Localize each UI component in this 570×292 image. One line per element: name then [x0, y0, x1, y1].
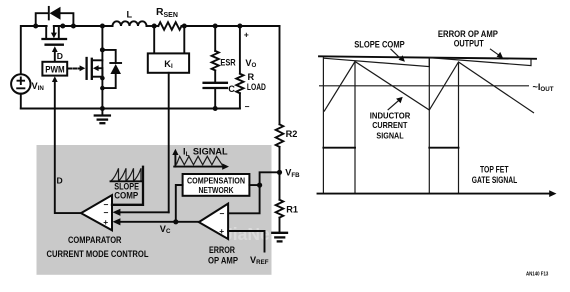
node dot rail source — [60, 24, 65, 29]
svg-text:D: D — [57, 176, 63, 186]
cycle marker t3 — [458, 62, 460, 148]
transistor Q2 bottom FET (N-channel) — [87, 58, 103, 79]
wire rail L to RSEN — [147, 25, 159, 27]
wire R2 to VFB — [279, 147, 281, 200]
node dot ground junction — [100, 106, 105, 111]
node dot VO branch top — [237, 24, 242, 29]
inductor current waveform — [324, 62, 534, 114]
resistor ESR — [212, 51, 219, 71]
arrow error op amp label — [490, 49, 503, 59]
current mode control shaded block — [37, 145, 272, 275]
diode D1 (across top FET) — [36, 7, 74, 26]
wire VC line error amp to comparator plus input — [113, 218, 199, 225]
svg-text:SLOPE COMP: SLOPE COMP — [354, 39, 405, 49]
wire comparator output D column to PWM — [52, 76, 81, 213]
cycle marker t1 — [354, 62, 356, 148]
inductor L — [113, 21, 147, 26]
node dot RSEN left — [152, 24, 157, 29]
source VIN — [11, 74, 30, 93]
IL signal annotation — [172, 149, 229, 170]
svg-text:−: − — [104, 207, 109, 217]
svg-text:C: C — [228, 84, 235, 94]
svg-text:R2: R2 — [286, 129, 298, 139]
wire sense line right — [183, 26, 185, 53]
wire C bottom — [214, 88, 216, 109]
error op amp output heavy line — [319, 56, 536, 59]
svg-text:−: − — [220, 208, 225, 218]
wire compensation right junction — [249, 172, 277, 185]
wire KI signal into comparator (middle input) — [113, 209, 169, 216]
node VFB — [277, 170, 282, 175]
node dot ESR top — [213, 24, 218, 29]
svg-text:CURRENT: CURRENT — [372, 120, 407, 130]
wire compensation left to VC — [176, 185, 183, 220]
wire bottom rail — [21, 108, 240, 110]
slope comp ramp cycle 1 — [323, 58, 429, 67]
svg-text:L: L — [127, 10, 133, 20]
svg-text:ERROR: ERROR — [209, 245, 235, 255]
svg-text:AN140 F13: AN140 F13 — [526, 271, 548, 277]
svg-text:TOP FET: TOP FET — [480, 164, 509, 174]
arrow slope comp label — [391, 49, 405, 62]
wire slope comp to comparator top input — [112, 167, 143, 205]
capacitor C — [204, 83, 227, 88]
node dot rail-diode right — [71, 24, 76, 29]
svg-text:COMPARATOR: COMPARATOR — [68, 235, 122, 245]
svg-text:+: + — [244, 29, 249, 39]
wire feedback column to R2 — [279, 26, 281, 124]
node dot RSEN right — [182, 24, 187, 29]
node VC — [173, 219, 178, 224]
wire switch node column — [101, 26, 103, 109]
wire ESR to C — [214, 70, 216, 82]
comparator U2 — [81, 195, 112, 230]
wire rail RSEN to corner — [182, 25, 280, 27]
svg-text:−: − — [245, 102, 250, 112]
wire gate drive D arrow (PWM to top FET gate) — [52, 46, 58, 61]
resistor RSEN — [158, 22, 181, 30]
node dot switch node top — [100, 24, 105, 29]
svg-text:SIGNAL: SIGNAL — [376, 130, 403, 140]
wire ESR branch top — [214, 26, 216, 51]
resistor R2 — [276, 124, 284, 147]
slope comp sawtooth icon — [111, 168, 142, 181]
svg-text:OUTPUT: OUTPUT — [454, 39, 484, 49]
svg-text:+: + — [103, 217, 108, 227]
resistor R1 — [276, 200, 284, 218]
svg-text:PWM: PWM — [45, 65, 64, 75]
svg-text:JiaNe: JiaNe — [223, 224, 270, 244]
gate pulse 1 top — [323, 147, 355, 149]
wire R LOAD bottom — [239, 93, 241, 108]
gate pulse 2 top — [429, 147, 458, 149]
op-amp U3 error amp — [199, 204, 228, 239]
node dot drain Q2 — [100, 47, 105, 52]
svg-text:NETWORK: NETWORK — [199, 185, 235, 195]
wire error amp plus to VREF — [228, 231, 264, 252]
node dot diode bottom — [100, 86, 105, 91]
svg-text:LOAD: LOAD — [247, 82, 266, 92]
gate signal baseline — [318, 190, 557, 197]
svg-text:D: D — [57, 51, 63, 61]
node dot compensation junction — [257, 183, 262, 188]
wire KI output column — [168, 73, 170, 213]
arrow inductor current label — [388, 97, 403, 110]
compensation network block — [183, 174, 250, 196]
svg-text:R: R — [248, 72, 255, 82]
diode D2 body diode of Q2 — [102, 50, 121, 88]
node dot C bottom — [213, 106, 218, 111]
wire VO branch — [239, 26, 241, 74]
wire VIN bottom — [20, 94, 22, 109]
svg-text:GATE SIGNAL: GATE SIGNAL — [472, 175, 518, 185]
resistor R LOAD — [236, 74, 243, 94]
slope comp ramp cycle 2 — [429, 58, 531, 66]
ground (feedback divider) — [272, 233, 287, 242]
svg-text:CURRENT MODE CONTROL: CURRENT MODE CONTROL — [47, 249, 149, 259]
current sense gain block KI — [148, 53, 189, 72]
wire top rail left (VIN to top FET drain) — [21, 26, 47, 74]
cycle marker t2 — [428, 58, 430, 148]
svg-text:INDUCTOR: INDUCTOR — [370, 111, 411, 121]
wire top rail right of top FET (source side to feedback corner) — [54, 25, 113, 27]
wire junction down to error amp minus — [228, 185, 260, 213]
svg-text:OP AMP: OP AMP — [208, 256, 238, 266]
wire R1 to ground — [279, 218, 281, 233]
svg-text:IL SIGNAL: IL SIGNAL — [183, 147, 228, 158]
transistor Q1 top FET (P-channel, horizontal) — [43, 26, 67, 45]
svg-text:COMP: COMP — [114, 191, 138, 201]
pwm block U1 — [42, 62, 67, 76]
IOUT level line — [319, 85, 529, 87]
node dot rail-diode left — [33, 24, 38, 29]
cycle marker t0 — [322, 57, 324, 148]
svg-text:R1: R1 — [286, 205, 298, 215]
wire dashed PWM to Q2 gate — [68, 65, 85, 71]
svg-text:+: + — [219, 226, 224, 236]
wire sense line left — [153, 26, 155, 53]
svg-text:ESR: ESR — [220, 57, 236, 67]
node dot source Q2 — [100, 76, 105, 81]
ground (power stage) — [95, 109, 110, 124]
